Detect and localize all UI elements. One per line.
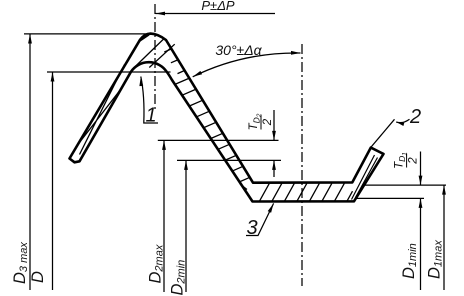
svg-text:D2max: D2max: [147, 244, 166, 283]
D2max dimension line: [163, 140, 165, 292]
centerline of groove: [301, 44, 303, 286]
svg-text:1: 1: [145, 105, 156, 127]
svg-text:D1max: D1max: [426, 240, 445, 279]
hatching: crest area: [132, 38, 175, 70]
label D3max: [11, 242, 30, 284]
thread profile outline (sheet band): [70, 34, 384, 202]
TD1/2 + D1min dimension line: [420, 152, 422, 186]
svg-text:D: D: [29, 271, 47, 283]
30 deg angle dimension arc: [193, 53, 301, 77]
svg-text:3: 3: [246, 217, 257, 239]
label D1min: [400, 243, 419, 279]
callout 2 leader: [371, 119, 409, 147]
label D1max: [426, 240, 445, 279]
svg-text:2: 2: [262, 118, 274, 126]
label D2min: [169, 260, 188, 296]
hatching: flat groove bottom: [260, 183, 353, 201]
label D: [29, 271, 47, 283]
TD2/2 dimension line: [273, 110, 275, 140]
TD1/2 label (rotated fraction): [394, 152, 420, 169]
D1max level line: [364, 184, 446, 186]
hatching: left flank slivers: [78, 65, 125, 155]
P dimension line: [156, 13, 276, 15]
TD2/2 label (rotated fraction): [248, 113, 274, 130]
svg-text:D1min: D1min: [400, 243, 419, 279]
D3max dimension line: [29, 34, 31, 290]
svg-text:P±ΔP: P±ΔP: [201, 0, 235, 13]
svg-text:D3 max: D3 max: [11, 242, 30, 284]
svg-text:2: 2: [408, 157, 420, 165]
D2min level line: [177, 159, 281, 161]
D1max dimension line: [443, 185, 445, 290]
callout 1 leader: [141, 77, 158, 124]
D1min level line: [356, 197, 424, 199]
crest left thick sliver: [138, 34, 152, 42]
D level line: [47, 71, 171, 73]
D3max level line: [24, 33, 150, 35]
D2min dimension line: [185, 160, 187, 292]
D2max level line: [158, 139, 279, 141]
D dimension line: [52, 72, 54, 290]
hatching: right tail sliver: [352, 155, 378, 200]
centerline of crest (axis of tooth): [154, 4, 156, 112]
label D2max: [147, 244, 166, 283]
svg-text:2: 2: [409, 106, 421, 128]
svg-text:D2min: D2min: [169, 260, 188, 296]
hatching: right flank rungs: [164, 49, 250, 190]
callout 3 leader: [246, 203, 274, 235]
svg-text:30°±Δα: 30°±Δα: [215, 42, 262, 58]
